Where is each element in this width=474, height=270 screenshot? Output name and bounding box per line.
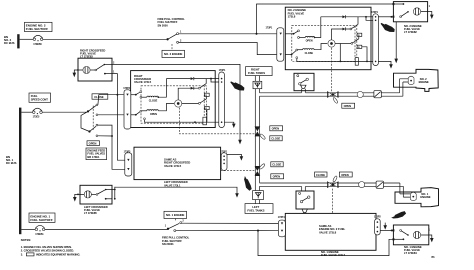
equipment marking pointer (173P2 no.1) <box>391 211 406 218</box>
svg-text:2. CROSSFEED VALVES SHOWN CLO: 2. CROSSFEED VALVES SHOWN CLOSED. <box>21 249 75 253</box>
connector 173P2 (left of right crossfeed valve) <box>123 87 131 129</box>
node BN NO.1 DC BUS label <box>6 155 17 165</box>
wire lamp circuit to floating arrow (left crossfeed) <box>112 187 239 200</box>
switch crossfeed control pole 1 <box>87 104 98 116</box>
label box ENGINE NO.1 FUEL SHUTOFF <box>29 213 55 222</box>
check valve no.1 line <box>359 182 365 188</box>
label LEFT CROSSFEED FUEL VALVE LT 173E85 <box>84 205 108 215</box>
indicator box NO.2 ENGINE FUEL VALVE LT 173E82 <box>393 2 427 22</box>
dashed mechanical link to NO.2 ENGINE fire handle <box>171 44 173 50</box>
switch fire pull control no.2 (pole) <box>166 31 182 44</box>
label box CLOSE (left crossfeed valve) <box>271 162 283 167</box>
limit switch S2 close (no.2 valve) <box>285 49 297 55</box>
svg-text:173E5: 173E5 <box>33 116 40 119</box>
svg-text:FUEL TANKS: FUEL TANKS <box>248 71 265 75</box>
circuit breaker FUEL SPEED CONT (173E5) <box>33 108 43 118</box>
stub from bypass pin (no.2 indicator) <box>393 3 405 18</box>
svg-text:OPEN: OPEN <box>89 142 97 146</box>
svg-text:OPEN: OPEN <box>306 40 313 43</box>
coil L2 CLOSE (no.2 valve) <box>298 44 328 55</box>
svg-text:1. ENGINE FUEL VALVES SHOWN O: 1. ENGINE FUEL VALVES SHOWN OPEN. <box>21 245 72 249</box>
label box OPEN (no.2 engine valve) <box>342 103 355 108</box>
svg-text:173P4: 173P4 <box>278 216 285 219</box>
dashed motor-to-valve mechanical link (no.1) <box>332 189 334 214</box>
wire contact2 to right crossfeed open pin <box>98 114 124 116</box>
pipe right tank outlet <box>255 76 259 82</box>
equipment marking pointer (left fuel tanks) <box>244 176 252 191</box>
svg-text:173L8: 173L8 <box>288 15 296 19</box>
ground wire and arrow (no.2 valve) <box>378 61 392 68</box>
bus bar NO.1 DC BUS <box>19 108 21 235</box>
label NO.1 ENGINE FUEL VALVE LT 173E84 <box>404 245 422 255</box>
wire breaker to fire pull switch no.1 <box>45 228 168 230</box>
label box CLOSE (no.1 engine valve) <box>315 172 327 177</box>
svg-text:NOTES:: NOTES: <box>21 238 31 242</box>
label box CLOSE (crossfeed switch) <box>92 94 108 99</box>
indicator box RIGHT CROSSFEED FUEL VALVE LT 173E83 <box>78 58 112 81</box>
svg-text:NO. 1 ENGINE: NO. 1 ENGINE <box>166 213 184 217</box>
wire indicator to caution arrow (no.2) <box>394 22 398 63</box>
relay coil R1 (no.2 valve) <box>357 33 362 37</box>
junction node bypass tap <box>255 33 257 35</box>
svg-text:FUEL SHUTOFF: FUEL SHUTOFF <box>158 20 178 24</box>
wire bus to crossfeed breaker <box>21 111 32 113</box>
label box RIGHT FUEL TANKS <box>246 67 273 76</box>
wire pole tie bar <box>81 111 90 131</box>
wire switch contact to connector pin B (no.1) <box>176 229 279 231</box>
svg-text:NO. 2 ENGINE: NO. 2 ENGINE <box>164 52 182 56</box>
ground wire and arrow (left crossfeed) <box>227 154 243 160</box>
svg-text:VALVE 173L1: VALVE 173L1 <box>164 183 181 187</box>
wire connector to indicator box no.2 <box>378 16 393 18</box>
relay contact K1-2 (no.2 valve) <box>335 36 359 44</box>
position switch (right crossfeed indicator) <box>90 61 115 74</box>
lamp output wire with arrow (no.1 indicator) <box>421 229 434 243</box>
connector 173P1 (left of valve no.2) <box>266 27 284 62</box>
svg-text:173P1: 173P1 <box>266 27 273 30</box>
junction node under-route tap <box>257 230 259 232</box>
label LEFT CROSSFEED VALVE 173L1 <box>164 180 188 187</box>
svg-text:OPEN: OPEN <box>273 175 281 179</box>
connector 173P3 (left of left crossfeed valve) <box>124 150 132 176</box>
pipe no.1 engine feed line <box>260 183 411 197</box>
fuel pump right (boost pump) <box>253 81 262 88</box>
pipe no.2 engine feed line <box>260 79 409 96</box>
valve V3 no.2 engine fuel shutoff (pipe, open) <box>328 91 339 104</box>
svg-text:OPEN: OPEN <box>272 127 280 131</box>
wire connector to indicator (no.1) <box>380 229 393 231</box>
indicator lamp DS1 (no.1) <box>413 231 420 238</box>
power feed arrow (left crossfeed indicator) <box>73 194 84 202</box>
wire under-route to no.1 indicator <box>258 231 393 256</box>
svg-text:DC BUS: DC BUS <box>6 161 17 165</box>
position switch (no.2 indicator) <box>400 11 409 18</box>
dashed limit-switch box (no.2 valve) <box>292 25 355 61</box>
dashed gang link crossfeed switch <box>92 106 94 131</box>
switch crossfeed control pole 2 <box>88 124 97 137</box>
label box FUEL SPEED CONT <box>29 93 51 102</box>
label box NO.1 ENGINE (fire handle) <box>164 211 187 218</box>
wire breaker to crossfeed switch <box>42 111 87 113</box>
label box LEFT FUEL TANKS <box>245 200 273 214</box>
indicator lamp DS4 (left crossfeed) <box>84 191 91 198</box>
svg-text:LT 173E82: LT 173E82 <box>404 30 417 34</box>
relay contact K2-2 (right crossfeed) <box>182 96 207 104</box>
ground-return rail (no.2 valve) <box>297 44 373 63</box>
svg-text:LT 173E84: LT 173E84 <box>404 251 417 255</box>
ground-return rail (right crossfeed) <box>144 118 219 123</box>
wire lamp circuit to floating arrow (right crossfeed) <box>112 64 242 144</box>
svg-text:CLOSE: CLOSE <box>305 52 314 55</box>
valve assembly U3 RIGHT CROSSFEED VALVE 173L5 (enclosure) <box>131 71 216 128</box>
svg-text:ENGINE: ENGINE <box>420 195 430 199</box>
label FIRE PULL CONTROL FUEL SHUTOFF SN 2000 <box>158 17 186 28</box>
switch fire pull control no.1 (pole) <box>165 220 185 232</box>
svg-text:OPEN: OPEN <box>344 104 352 108</box>
label box OPEN (crossfeed switch) <box>87 141 99 146</box>
svg-text:ENGINE: ENGINE <box>419 80 429 84</box>
auxiliary contact stub (no.2 valve) <box>296 57 298 62</box>
resistor R6 (right crossfeed) <box>203 117 207 125</box>
svg-text:FIRE PULL CONTROL: FIRE PULL CONTROL <box>162 235 190 239</box>
svg-text:SN 23001: SN 23001 <box>162 242 174 246</box>
relay coil R2 (no.2 valve) <box>357 45 367 61</box>
power stub arrow (no.1 indicator feed) <box>383 223 387 230</box>
svg-text:SN 2000: SN 2000 <box>158 24 169 28</box>
check valve no.2 line <box>357 91 363 97</box>
resistor R3 (no.2 valve) <box>355 58 358 66</box>
wire motor top to diode CR4 <box>178 88 190 100</box>
power feed arrow (right crossfeed indicator) <box>73 69 83 77</box>
diode CR4 (right crossfeed) <box>191 87 199 90</box>
diode CR1 (no.2 valve) <box>342 27 350 30</box>
valve assembly U4 LEFT CROSSFEED VALVE 173L1 (enclosure) <box>134 147 221 179</box>
label box CROSSFEED FUEL VALVES BR 173E3 <box>86 148 107 160</box>
relay coil R4 (right crossfeed) <box>205 93 210 97</box>
motor M1 (no.2 valve) <box>328 40 335 47</box>
label NO.1 ENGINE FUEL VALVE 173L7 <box>321 250 346 257</box>
svg-text:173EB8: 173EB8 <box>33 43 42 46</box>
wire switch contact to connector pin A (no.1) <box>182 222 279 224</box>
connector 173P2 (right of valve no.1) <box>374 216 381 235</box>
lamp output wire with arrow (no.2 indicator) <box>421 5 434 19</box>
mechanical valve box no.1 (with drain) <box>296 187 314 213</box>
indicator box LEFT CROSSFEED FUEL VALVE LT 173E85 <box>80 185 112 204</box>
label box NO.2 ENGINE (fire handle) <box>162 50 185 57</box>
wire bus to breaker no.1 <box>21 228 35 230</box>
pipe crossfeed manifold (center) <box>255 89 259 191</box>
label FIRE PULL CONTROL FUEL SHUTOFF SN 23001 <box>162 235 190 246</box>
equipment marking pointer (173P1 right) <box>381 23 395 32</box>
relay coil R5 (right crossfeed) <box>205 106 210 122</box>
svg-text:VALVE 173L5: VALVE 173L5 <box>134 80 152 84</box>
svg-text:INDICATES EQUIPMENT MARKING.: INDICATES EQUIPMENT MARKING. <box>36 253 81 257</box>
coil L4 OPEN (right crossfeed) <box>142 104 174 117</box>
dead stub (no.1 indicator) <box>393 229 405 240</box>
svg-text:FUEL SHUTOFF: FUEL SHUTOFF <box>30 218 52 222</box>
bus bar NO.2 DC BUS <box>17 34 19 48</box>
label NO.2 ENGINE FUEL VALVE LT 173E82 <box>404 24 422 34</box>
limit switch S4 (right crossfeed) <box>131 110 142 115</box>
relay contact K2-1 (right crossfeed) <box>198 79 206 90</box>
wire breaker to fire pull switch <box>43 38 168 40</box>
connector 173P4 (left of valve no.1) <box>278 216 286 237</box>
position switch (no.1 indicator) <box>400 230 409 236</box>
filter no.1 line <box>376 181 383 188</box>
wire contact4 to left crossfeed open pin <box>98 135 125 169</box>
dashed limit-switch box (right crossfeed) <box>141 86 206 123</box>
dashed mechanical link fire handle no.1 <box>175 219 177 222</box>
svg-text:LT 173E85: LT 173E85 <box>84 211 97 215</box>
svg-text:DC BUS: DC BUS <box>4 41 15 45</box>
wire junction down to left crossfeed close pin <box>117 95 124 161</box>
svg-text:VALVE 173L5: VALVE 173L5 <box>164 164 182 168</box>
fuel pump left (boost pump) <box>253 191 264 200</box>
wire switch contact2 to connector pin B <box>179 43 277 55</box>
mechanical valve box no.2 (with drain) <box>294 73 314 92</box>
indicator lamp DS3 (right crossfeed) <box>83 66 90 73</box>
svg-text:FUEL VALVE 173L7: FUEL VALVE 173L7 <box>321 253 346 257</box>
svg-text:CLOSE: CLOSE <box>272 163 281 167</box>
fuel control no.2 (canister) <box>408 76 414 85</box>
dashed mechanical link to left crossfeed valve <box>221 170 255 172</box>
valve assembly U2 NO.2 ENGINE FUEL VALVE 173L8 (enclosure) <box>285 7 371 69</box>
svg-text:CLOSE: CLOSE <box>271 137 280 141</box>
valve V4 no.1 engine fuel shutoff (pipe, open) <box>328 175 339 188</box>
svg-text:OPEN: OPEN <box>150 113 157 116</box>
svg-text:FIRE PULL CONTROL: FIRE PULL CONTROL <box>158 17 186 21</box>
dashed relay gang link (right crossfeed) <box>203 85 205 118</box>
label box OPEN (left crossfeed valve) <box>271 174 284 179</box>
svg-text:CLOSE: CLOSE <box>149 99 158 102</box>
dashed motor-to-valve mechanical link (right crossfeed) <box>180 108 255 134</box>
svg-text:SPEED CONT: SPEED CONT <box>31 97 48 101</box>
label box CLOSE (right crossfeed valve) <box>270 136 282 141</box>
limit switch S3 (right crossfeed) <box>131 91 142 99</box>
relay contact K1-1 (no.2 valve) <box>350 17 358 30</box>
wire motor top branch to diode CR1 <box>332 29 343 40</box>
svg-text:BR 173E1: BR 173E1 <box>87 155 100 159</box>
motor M2 (right crossfeed) <box>175 100 182 107</box>
label box OPEN (right crossfeed valve) <box>270 126 283 131</box>
limit switch S1 open (no.2 valve) <box>285 30 299 39</box>
coil L1 OPEN (no.2 valve) <box>299 17 321 43</box>
circuit breaker ENGINE NO.2 FUEL SHUTOFF (173E8) <box>33 35 43 46</box>
wire lamp circuit down to connector net <box>112 74 117 95</box>
svg-text:VALVE 173L8: VALVE 173L8 <box>319 230 337 234</box>
svg-text:FUEL TANKS: FUEL TANKS <box>247 208 264 212</box>
circuit breaker ENGINE NO.1 FUEL SHUTOFF (173E1) <box>35 225 45 236</box>
label RIGHT CROSSFEED FUEL VALVE LT 173E83 <box>80 48 105 58</box>
filter no.2 line <box>374 91 381 98</box>
svg-text:173P2: 173P2 <box>374 216 381 219</box>
diode CR2 on top rail (no.2 valve) <box>321 15 373 20</box>
wire bus to breaker <box>20 38 34 40</box>
diode CR3 on top rail (right crossfeed) <box>166 77 218 82</box>
connector 173P1 (right of left crossfeed valve) <box>220 150 227 170</box>
fuel control no.1 (canister) <box>410 192 416 201</box>
label box OPEN (no.1 engine valve) <box>339 172 352 177</box>
connector 173P1 (right of right crossfeed valve) <box>219 69 226 127</box>
wire contact3 to left crossfeed net <box>98 125 112 136</box>
valve V2 left crossfeed (center pipe, closed) <box>255 163 266 176</box>
svg-text:CLOSE: CLOSE <box>316 173 325 177</box>
position switch (left crossfeed indicator) <box>91 189 112 200</box>
engine NO.2 (outline) <box>394 69 439 91</box>
node BN NO.2 DC BUS label <box>4 35 15 45</box>
svg-text:OPEN: OPEN <box>341 173 349 177</box>
indicator lamp DS2 (no.2) <box>413 8 420 15</box>
wire contact1 to right crossfeed close pin <box>98 94 124 105</box>
label box ENGINE NO.2 FUEL SHUTOFF <box>25 22 53 31</box>
notes block <box>21 238 81 256</box>
svg-text:3.: 3. <box>21 253 23 257</box>
wire bypass to no.2 valve indicator (around box top) <box>257 4 394 34</box>
dashed motor-to-valve mechanical link (no.2) <box>331 48 333 92</box>
valve assembly U5 NO.1 ENGINE FUEL VALVE 173L7 (enclosure) <box>285 213 376 250</box>
svg-text:FUEL SHUTOFF: FUEL SHUTOFF <box>26 27 48 31</box>
equipment marking pointer (right fuel tanks) <box>230 81 244 90</box>
svg-text:173EB1: 173EB1 <box>35 233 44 236</box>
dashed relay gang link (no.2 valve) <box>356 25 358 58</box>
ground wire and arrow (right crossfeed) <box>224 122 235 128</box>
wire switch contact1 to connector pin A <box>179 33 277 35</box>
engine NO.1 (outline) <box>395 188 439 207</box>
svg-text:FUEL SHUTOFF: FUEL SHUTOFF <box>162 239 182 243</box>
indicator box NO.1 ENGINE FUEL VALVE LT 173E84 <box>393 225 428 245</box>
valve V1 right crossfeed (center pipe, closed) <box>255 126 266 139</box>
coil L3 CLOSE (right crossfeed) <box>142 79 167 103</box>
connector 173P1 (right of valve no.2) <box>371 11 378 65</box>
